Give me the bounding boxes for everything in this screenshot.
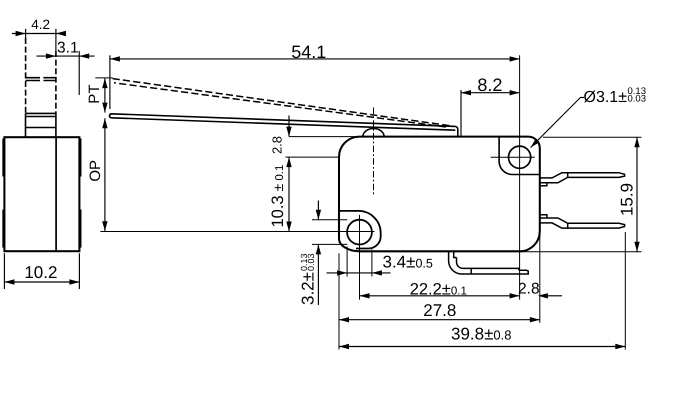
left view side mounting tabs xyxy=(3,139,81,248)
dimension 8.2 xyxy=(461,75,520,137)
svg-text:3.1: 3.1 xyxy=(57,39,79,56)
svg-text:10.2: 10.2 xyxy=(24,263,57,282)
dimension 39.8 +-0.8 xyxy=(339,232,625,350)
plunger dome xyxy=(363,129,384,137)
OP reference line xyxy=(100,231,374,233)
terminal pin 1 (upper right) xyxy=(540,173,625,186)
left view switch body xyxy=(4,137,79,251)
svg-text:3.4±0.5: 3.4±0.5 xyxy=(383,253,433,272)
dimension 2.8 (body top to flange, left chain) xyxy=(270,116,360,158)
dimension 22.2 +-0.1 xyxy=(360,281,520,299)
svg-text:10.3 ± 0.1: 10.3 ± 0.1 xyxy=(269,165,287,228)
lever free position (dashed) xyxy=(113,79,452,126)
mounting hole bottom-left xyxy=(347,220,372,245)
dimension 4.2 xyxy=(12,17,66,36)
bottom-left mounting boss xyxy=(339,211,381,249)
svg-text:Ø3.1±: Ø3.1± xyxy=(584,89,628,106)
plunger centerline xyxy=(373,108,375,195)
svg-text:2.8: 2.8 xyxy=(518,281,540,298)
svg-text:OP: OP xyxy=(87,160,104,182)
dimension OP xyxy=(87,118,108,231)
dimension PT xyxy=(86,78,113,113)
svg-text:4.2: 4.2 xyxy=(31,17,50,32)
mounting hole top-right xyxy=(508,146,530,168)
svg-text:3.2±: 3.2± xyxy=(298,272,317,305)
svg-text:2.8: 2.8 xyxy=(270,136,285,154)
dimension 3.4 +-0.5 xyxy=(327,247,433,277)
dimension 10.3 +-0.1 xyxy=(269,157,292,231)
svg-text:8.2: 8.2 xyxy=(477,75,502,95)
lever operating position (solid) xyxy=(110,114,458,137)
common terminal (bottom, L-shaped) xyxy=(449,252,529,275)
left view plunger pressed position (solid) xyxy=(26,113,56,137)
svg-text:22.2±0.1: 22.2±0.1 xyxy=(410,281,467,299)
label hole diameter 3.1 with leader xyxy=(531,86,646,148)
left view plunger free position (dashed outline) xyxy=(26,29,56,114)
svg-text:0.03: 0.03 xyxy=(306,253,316,271)
dimension 3.2 +0.13/-0.03 xyxy=(298,201,347,306)
svg-text:54.1: 54.1 xyxy=(291,42,326,62)
svg-text:39.8±0.8: 39.8±0.8 xyxy=(451,324,512,343)
hole centerline bottom-left (vertical) xyxy=(359,215,361,300)
svg-text:PT: PT xyxy=(86,85,103,104)
dimension 27.8 xyxy=(339,253,540,349)
hole centerlines top-right xyxy=(491,156,535,158)
dimension 3.1 xyxy=(37,39,95,95)
main switch body outline xyxy=(339,137,540,252)
svg-text:0.03: 0.03 xyxy=(628,93,647,104)
dimension 54.1 xyxy=(110,42,520,109)
svg-text:27.8: 27.8 xyxy=(423,301,456,320)
terminal pin 2 (lower right) xyxy=(540,215,625,228)
top-right mounting hole recess xyxy=(499,137,539,175)
dimension 10.2 xyxy=(4,253,79,289)
dimension 2.8 (hole center to body edge, bottom right) xyxy=(518,231,562,323)
dimension 15.9 xyxy=(519,137,642,252)
svg-text:15.9: 15.9 xyxy=(618,183,637,216)
